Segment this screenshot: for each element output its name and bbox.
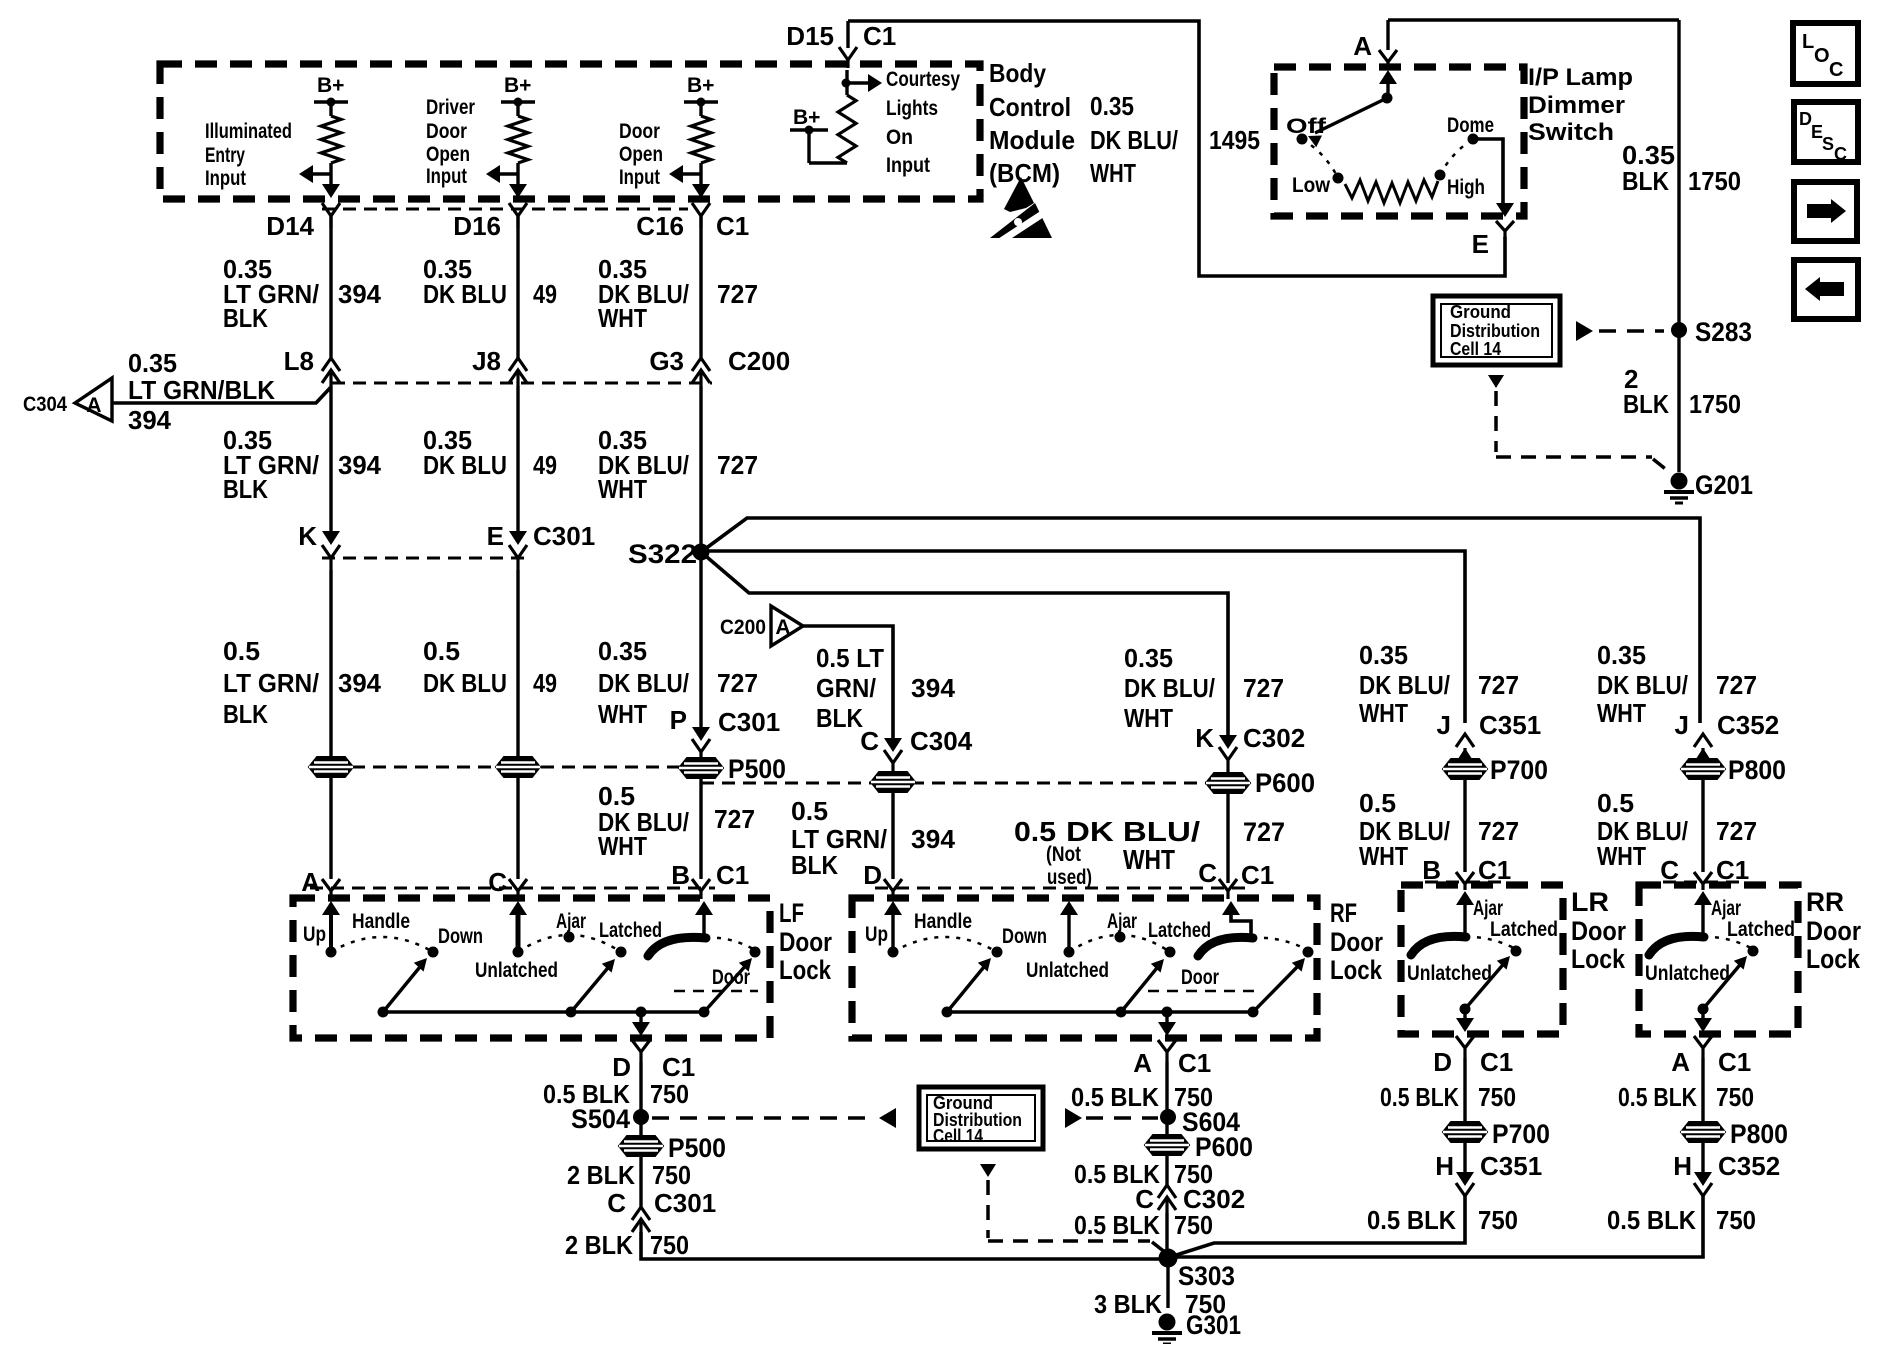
svg-text:Unlatched: Unlatched <box>1645 962 1730 985</box>
svg-text:WHT: WHT <box>1597 698 1646 728</box>
grommet P700 <box>1443 755 1548 785</box>
svg-text:LF: LF <box>779 898 804 928</box>
label 2 BLK 750 (below C301) <box>565 1230 689 1260</box>
text 0.35 DK BLU/ WHT circuit 1495 <box>1090 91 1260 188</box>
svg-text:0.5 BLK: 0.5 BLK <box>1618 1082 1697 1112</box>
RF handle switch Up contact <box>884 901 902 958</box>
connector pin C C304 <box>860 726 972 772</box>
RF door switch arm <box>1253 958 1305 1012</box>
ESD sensitive device symbol <box>990 177 1053 243</box>
svg-text:394: 394 <box>911 824 956 854</box>
label 0.5 DK BLU/ WHT 727 (below P500) <box>598 781 755 861</box>
svg-text:Low: Low <box>1292 174 1331 197</box>
svg-text:DK BLU: DK BLU <box>423 450 507 480</box>
wire S322 bottom branch to RF column <box>701 552 1228 737</box>
svg-text:394: 394 <box>128 405 172 435</box>
connector line C1 below BCM (thin dashed) <box>322 208 688 211</box>
svg-text:C301: C301 <box>718 707 780 737</box>
svg-text:G3: G3 <box>649 346 684 376</box>
svg-text:Control: Control <box>989 92 1071 122</box>
svg-text:Ground: Ground <box>1450 302 1511 322</box>
next arrow icon box <box>1794 182 1857 241</box>
dimmer rheostat resistor <box>1345 180 1438 203</box>
wire E to LF grommet <box>516 570 519 757</box>
svg-text:Open: Open <box>619 143 663 166</box>
svg-text:used): used) <box>1047 866 1092 889</box>
svg-text:A: A <box>1133 1048 1152 1078</box>
svg-text:H: H <box>1673 1151 1692 1181</box>
svg-text:727: 727 <box>1478 670 1519 700</box>
svg-text:Door: Door <box>1181 966 1219 989</box>
svg-text:C: C <box>1829 59 1843 81</box>
grommet dashed line left <box>331 766 701 769</box>
svg-text:DK BLU/: DK BLU/ <box>1124 673 1215 703</box>
wire P600 to RF pin C <box>1226 793 1229 883</box>
label 0.35 DK BLU/ WHT 727 (mid) <box>598 425 758 504</box>
svg-text:S322: S322 <box>628 539 697 569</box>
svg-text:BLK: BLK <box>223 474 268 504</box>
label RF Door Lock <box>1330 898 1383 985</box>
LF Unlatched contact and wire <box>509 901 527 958</box>
svg-text:LT GRN/: LT GRN/ <box>223 668 319 698</box>
RF pin D <box>863 860 902 899</box>
svg-text:D: D <box>863 860 882 890</box>
svg-text:WHT: WHT <box>598 303 647 333</box>
svg-text:Unlatched: Unlatched <box>1407 962 1492 985</box>
wire dimmer A to ground G201 <box>1388 20 1679 472</box>
LR pin B C1 <box>1422 855 1511 890</box>
DESC icon box <box>1794 102 1858 164</box>
I/P Lamp Dimmer Switch dashed box <box>1274 67 1524 216</box>
dimmer wire Dome to pin E <box>1473 139 1514 217</box>
text Door Open Input <box>619 120 663 189</box>
svg-text:(Not: (Not <box>1046 843 1081 866</box>
svg-text:Door: Door <box>1806 916 1861 946</box>
connector pin J8 <box>472 346 527 386</box>
svg-text:727: 727 <box>717 450 758 480</box>
svg-text:3 BLK: 3 BLK <box>1094 1289 1162 1319</box>
svg-text:0.5 BLK: 0.5 BLK <box>1607 1205 1696 1235</box>
text Courtesy Lights On Input <box>886 68 960 177</box>
wire C200 triangle to RF door column <box>803 626 893 742</box>
splice S283 <box>1671 317 1752 347</box>
dashed drop from ground distribution to S303 <box>980 1164 1166 1253</box>
RF switch common line <box>942 1007 1259 1018</box>
svg-text:C301: C301 <box>533 521 595 551</box>
wire C16 to G3 <box>699 216 702 360</box>
wire BCM D15 to I/P dimmer E terminal <box>848 21 1505 276</box>
svg-text:S303: S303 <box>1178 1261 1235 1291</box>
svg-text:C351: C351 <box>1479 710 1541 740</box>
svg-text:DK BLU/: DK BLU/ <box>1597 670 1688 700</box>
svg-text:0.35: 0.35 <box>1597 640 1646 670</box>
wire P800 to RR pin C <box>1701 779 1704 872</box>
connector pin C C302 (ground) <box>1135 1184 1245 1214</box>
wire S322 down to P C301 <box>699 552 702 728</box>
svg-text:BLK: BLK <box>1623 389 1669 419</box>
svg-text:49: 49 <box>533 450 557 480</box>
svg-text:0.5: 0.5 <box>1597 788 1634 818</box>
svg-text:Ajar: Ajar <box>1711 897 1741 920</box>
svg-text:J: J <box>1437 710 1451 740</box>
svg-text:C1: C1 <box>863 21 896 51</box>
svg-text:WHT: WHT <box>598 699 647 729</box>
label 0.35 DK BLU 49 (mid) <box>423 425 557 480</box>
connector line C1 above RF door lock <box>875 887 1245 890</box>
svg-text:2 BLK: 2 BLK <box>567 1160 635 1190</box>
LR switch arm <box>1460 956 1511 1015</box>
wire RF A to S604 <box>1165 1062 1168 1140</box>
grommet on DK BLU wire <box>496 757 540 777</box>
svg-text:G201: G201 <box>1695 470 1753 500</box>
svg-text:S504: S504 <box>571 1104 630 1134</box>
svg-text:C1: C1 <box>1241 860 1274 890</box>
splice S604 <box>1160 1107 1240 1137</box>
grommet P700 (ground wire) <box>1443 1119 1550 1149</box>
RF ajar switch arm <box>1121 959 1164 1012</box>
svg-text:Door: Door <box>1330 927 1383 957</box>
svg-text:Unlatched: Unlatched <box>1026 959 1109 982</box>
wire C304 branch to L8 wire <box>112 387 331 403</box>
svg-text:0.5 BLK: 0.5 BLK <box>1074 1210 1160 1240</box>
svg-text:(BCM): (BCM) <box>989 158 1060 188</box>
svg-text:Ajar: Ajar <box>556 910 586 933</box>
label 0.35 LT GRN/ BLK 394 (upper) <box>223 254 382 333</box>
label LF Door Lock <box>779 898 832 985</box>
connector line C1 above LF door lock <box>310 887 715 890</box>
svg-text:P800: P800 <box>1728 755 1786 785</box>
ground G201 <box>1664 470 1753 503</box>
svg-text:DK BLU/: DK BLU/ <box>1359 670 1450 700</box>
label 0.5 BLK 750 (LR lower) <box>1367 1205 1518 1235</box>
label 0.35 BLK 1750 <box>1622 140 1741 196</box>
svg-text:WHT: WHT <box>598 474 647 504</box>
RF door dotted arc <box>1253 938 1308 950</box>
svg-text:BLK: BLK <box>223 699 268 729</box>
svg-text:A: A <box>301 867 320 897</box>
svg-text:0.35: 0.35 <box>1359 640 1408 670</box>
svg-text:WHT: WHT <box>1359 841 1408 871</box>
RF Door Lock dashed box <box>852 898 1317 1038</box>
svg-text:WHT: WHT <box>1124 703 1173 733</box>
RR dotted arc to Latched <box>1704 937 1753 949</box>
connector line C200 (thin dashed) <box>332 382 712 385</box>
svg-text:C1: C1 <box>1480 1047 1513 1077</box>
RF handle arc dotted <box>893 937 997 952</box>
svg-text:Switch: Switch <box>1528 119 1614 146</box>
connector line C1 above LR door lock <box>1425 881 1505 884</box>
svg-text:C: C <box>488 867 507 897</box>
LF door switch arm <box>704 958 752 1012</box>
wire C302 to S303 <box>1165 1213 1168 1250</box>
svg-text:0.35: 0.35 <box>128 348 177 378</box>
arrow to input label at x=331 <box>299 165 331 183</box>
LF Door Lock dashed box <box>293 898 770 1038</box>
RR exit arrow <box>1694 1009 1712 1032</box>
svg-text:Handle: Handle <box>914 910 972 933</box>
LF ajar switch arm <box>571 959 615 1012</box>
label 0.5 DK BLU/ WHT 727 (LR lower) <box>1359 788 1519 871</box>
grommet P500 (ground wire) <box>619 1133 726 1163</box>
RR pin A C1 below box <box>1671 1036 1751 1077</box>
svg-text:Latched: Latched <box>1727 918 1795 941</box>
RF handle switch arm <box>947 958 991 1012</box>
label 0.35 DK BLU/ WHT 727 (upper) <box>598 254 758 333</box>
splice S322 <box>628 539 710 569</box>
svg-text:C352: C352 <box>1717 710 1779 740</box>
RR Door Lock dashed box <box>1639 885 1798 1034</box>
dimmer pin A <box>1353 20 1397 70</box>
dimmer pin E <box>1472 221 1514 259</box>
svg-text:C1: C1 <box>662 1052 695 1082</box>
svg-text:1750: 1750 <box>1689 389 1741 419</box>
connector D15 C1 at BCM top <box>786 21 896 68</box>
label 0.5 BLK 750 (above C302) <box>1074 1159 1213 1189</box>
svg-text:Unlatched: Unlatched <box>475 959 558 982</box>
LR pin D C1 below box <box>1433 1036 1513 1077</box>
label 3 BLK 750 <box>1094 1289 1226 1319</box>
svg-text:Up: Up <box>865 923 888 946</box>
svg-text:Input: Input <box>619 166 660 189</box>
wire P600 to C C302 <box>1165 1155 1168 1185</box>
svg-text:727: 727 <box>1243 673 1284 703</box>
svg-text:D: D <box>1433 1047 1452 1077</box>
RR switch arm <box>1698 956 1748 1015</box>
svg-text:0.35: 0.35 <box>598 636 647 666</box>
RF Latched contact <box>1148 919 1211 958</box>
svg-text:C302: C302 <box>1243 723 1305 753</box>
ground distribution cell 14 box (top) <box>1433 296 1560 365</box>
svg-text:1495: 1495 <box>1209 125 1260 155</box>
courtesy lights resistor in BCM <box>790 70 856 163</box>
connector pin P C301 <box>670 705 781 758</box>
svg-text:0.5: 0.5 <box>223 636 260 666</box>
svg-text:A: A <box>1671 1047 1690 1077</box>
LF pin B C1 <box>671 860 749 899</box>
grommet on C304 branch wire <box>871 772 915 792</box>
svg-text:0.5: 0.5 <box>791 796 828 826</box>
svg-text:RF: RF <box>1330 898 1357 928</box>
LF Down contact <box>428 925 484 958</box>
label 0.5 LT GRN/ BLK 394 (below C304 grommet) <box>791 796 956 880</box>
C200 in-line connector triangle A (middle) <box>720 606 803 646</box>
connector pin C16 <box>636 184 710 241</box>
svg-text:1750: 1750 <box>1688 166 1741 196</box>
ground distribution cell 14 box (bottom) <box>919 1087 1043 1149</box>
svg-text:Cell 14: Cell 14 <box>1450 339 1501 359</box>
svg-text:L: L <box>1802 31 1814 53</box>
wire LF D to S504 <box>639 1062 642 1140</box>
svg-text:D15: D15 <box>786 21 834 51</box>
svg-text:727: 727 <box>1243 817 1285 847</box>
RR pin C C1 <box>1660 855 1749 890</box>
RR door bold arc <box>1649 936 1704 955</box>
RF door right contact <box>1303 947 1314 958</box>
wire J8 to E <box>516 386 519 531</box>
dashed line S504 to ground distribution <box>652 1108 896 1128</box>
wire G3 to S322 <box>699 386 702 552</box>
svg-text:C: C <box>860 726 879 756</box>
svg-text:Down: Down <box>1002 925 1047 948</box>
wire P700 to LR pin B <box>1463 779 1466 872</box>
svg-text:49: 49 <box>533 668 557 698</box>
label 2 BLK 750 (above C301) <box>567 1160 691 1190</box>
label 0.5 BLK 750 (RR) <box>1618 1082 1754 1112</box>
svg-text:0.35: 0.35 <box>1090 91 1134 121</box>
svg-text:727: 727 <box>1716 816 1757 846</box>
label 0.35 LT GRN/ BLK 394 (mid) <box>223 425 382 504</box>
svg-text:DK BLU/: DK BLU/ <box>598 668 689 698</box>
svg-text:P700: P700 <box>1490 755 1548 785</box>
svg-text:Door: Door <box>426 120 467 143</box>
grommet P600 <box>1206 768 1315 798</box>
connector pin C C301 (ground) <box>607 1188 716 1232</box>
connector pin D16 <box>453 184 527 241</box>
label 0.5 LT GRN/ BLK 394 (lower left) <box>223 636 382 729</box>
svg-text:WHT: WHT <box>1597 841 1646 871</box>
arrow from ground distribution to S604 <box>1065 1108 1158 1128</box>
LF Latched contact <box>599 919 662 958</box>
svg-text:Ajar: Ajar <box>1473 897 1503 920</box>
dimmer Low contact <box>1292 173 1344 198</box>
LF Ajar contact <box>556 910 586 943</box>
svg-text:C: C <box>1834 144 1847 164</box>
svg-text:Driver: Driver <box>426 96 475 119</box>
LF pin D C1 below box <box>612 1040 695 1082</box>
LF door dashed line <box>674 990 758 993</box>
grommet P800 (ground wire) <box>1681 1119 1788 1149</box>
LR door bold arc <box>1411 936 1466 955</box>
svg-text:D14: D14 <box>266 211 314 241</box>
svg-text:Ajar: Ajar <box>1107 910 1137 933</box>
RF common exit arrow <box>1158 1012 1176 1036</box>
label RR Door Lock <box>1806 887 1861 974</box>
svg-text:E: E <box>1472 229 1489 259</box>
wire P500 to C C301 <box>639 1156 642 1207</box>
svg-text:Distribution: Distribution <box>1450 321 1540 341</box>
svg-text:2 BLK: 2 BLK <box>565 1230 633 1260</box>
svg-text:C301: C301 <box>654 1188 716 1218</box>
svg-text:0.5 BLK: 0.5 BLK <box>1367 1205 1456 1235</box>
svg-text:750: 750 <box>1174 1210 1213 1240</box>
svg-text:High: High <box>1447 176 1485 199</box>
svg-text:0.5 BLK: 0.5 BLK <box>1380 1082 1459 1112</box>
svg-text:O: O <box>1814 45 1830 67</box>
svg-text:DK BLU/: DK BLU/ <box>1066 816 1200 847</box>
svg-text:Handle: Handle <box>352 910 410 933</box>
label 0.35 DK BLU 49 (upper) <box>423 254 557 309</box>
svg-text:BLK: BLK <box>816 703 863 733</box>
svg-text:Lock: Lock <box>1806 944 1861 974</box>
label 0.5 BLK 750 (RF) <box>1071 1082 1213 1112</box>
LF pin A <box>301 867 340 899</box>
connector pin K C302 <box>1195 723 1305 772</box>
svg-text:Door: Door <box>1571 916 1626 946</box>
svg-text:B: B <box>1422 855 1441 885</box>
grommet P500 <box>679 754 786 784</box>
svg-text:P700: P700 <box>1492 1119 1550 1149</box>
wire grommet to LF pin A <box>329 777 332 879</box>
svg-text:750: 750 <box>650 1079 689 1109</box>
LF ajar arc dotted <box>518 935 621 952</box>
label LR Door Lock <box>1571 887 1626 974</box>
wire grommet to LF pin C <box>516 777 519 879</box>
wire LF ground to S303 <box>641 1232 1168 1259</box>
svg-text:P: P <box>670 705 687 735</box>
LF switch common line <box>378 1007 710 1018</box>
LF handle switch arm <box>383 958 427 1012</box>
svg-text:WHT: WHT <box>1090 158 1136 188</box>
RR Latched contact <box>1727 918 1795 957</box>
svg-text:Latched: Latched <box>599 919 662 942</box>
svg-text:G301: G301 <box>1186 1310 1241 1340</box>
label 0.5 DK BLU/ WHT 727 (below P600) <box>1014 816 1285 875</box>
svg-text:DK BLU: DK BLU <box>423 668 507 698</box>
svg-text:C: C <box>1660 855 1679 885</box>
svg-text:Door: Door <box>779 927 832 957</box>
wire S303 to G301 <box>1166 1258 1169 1308</box>
connector pin K <box>298 521 340 570</box>
LF door switch wire up <box>695 901 713 938</box>
svg-text:B+: B+ <box>317 74 344 97</box>
svg-text:P800: P800 <box>1730 1119 1788 1149</box>
arrow to input label at x=518 <box>486 165 518 183</box>
svg-text:C1: C1 <box>716 860 749 890</box>
text Illuminated Entry Input <box>205 120 292 190</box>
ground G301 <box>1152 1310 1241 1344</box>
svg-text:C200: C200 <box>720 616 766 639</box>
dimmer High contact <box>1435 170 1486 200</box>
svg-text:Input: Input <box>886 154 930 177</box>
svg-text:750: 750 <box>1716 1205 1756 1235</box>
connector pin J C352 <box>1675 710 1780 762</box>
svg-text:750: 750 <box>650 1230 689 1260</box>
wire grommet to RF pin D <box>891 792 894 879</box>
LR exit arrow <box>1456 1009 1474 1032</box>
svg-text:727: 727 <box>714 804 755 834</box>
svg-text:C: C <box>1198 858 1217 888</box>
svg-text:I/P Lamp: I/P Lamp <box>1528 64 1633 91</box>
svg-text:0.5 BLK: 0.5 BLK <box>1071 1082 1159 1112</box>
svg-text:0.5 LT: 0.5 LT <box>816 643 884 673</box>
svg-text:Courtesy: Courtesy <box>886 68 960 91</box>
RF ajar arc dotted <box>1069 935 1170 952</box>
svg-text:B+: B+ <box>504 74 531 97</box>
label 0.5 BLK 750 (below C302) <box>1074 1210 1213 1240</box>
svg-text:BLK: BLK <box>223 303 268 333</box>
resistor pull-up in BCM at x=701 <box>684 74 718 185</box>
svg-text:B: B <box>671 860 690 890</box>
connector pin G3 <box>649 346 710 386</box>
svg-text:Off: Off <box>1286 115 1327 138</box>
svg-text:WHT: WHT <box>1359 698 1408 728</box>
RR ajar wire and arrow <box>1694 891 1712 936</box>
RF Down contact <box>992 925 1048 958</box>
wire S322 middle branch to LR column <box>701 551 1465 723</box>
svg-text:C1: C1 <box>1478 855 1511 885</box>
svg-text:A: A <box>1353 31 1372 61</box>
arrow to input label at x=701 <box>669 165 701 183</box>
LR Door Lock dashed box <box>1401 885 1563 1034</box>
LR ajar wire and arrow <box>1456 891 1474 936</box>
svg-text:Entry: Entry <box>205 144 245 167</box>
svg-text:Cell 14: Cell 14 <box>933 1126 983 1146</box>
RF door switch bold arc <box>1198 937 1253 956</box>
svg-text:K: K <box>298 521 317 551</box>
svg-text:C1: C1 <box>1716 855 1749 885</box>
splice S303 <box>1159 1249 1236 1292</box>
label 0.35 DK BLU/ WHT 727 (RF above P600) <box>1124 643 1284 733</box>
